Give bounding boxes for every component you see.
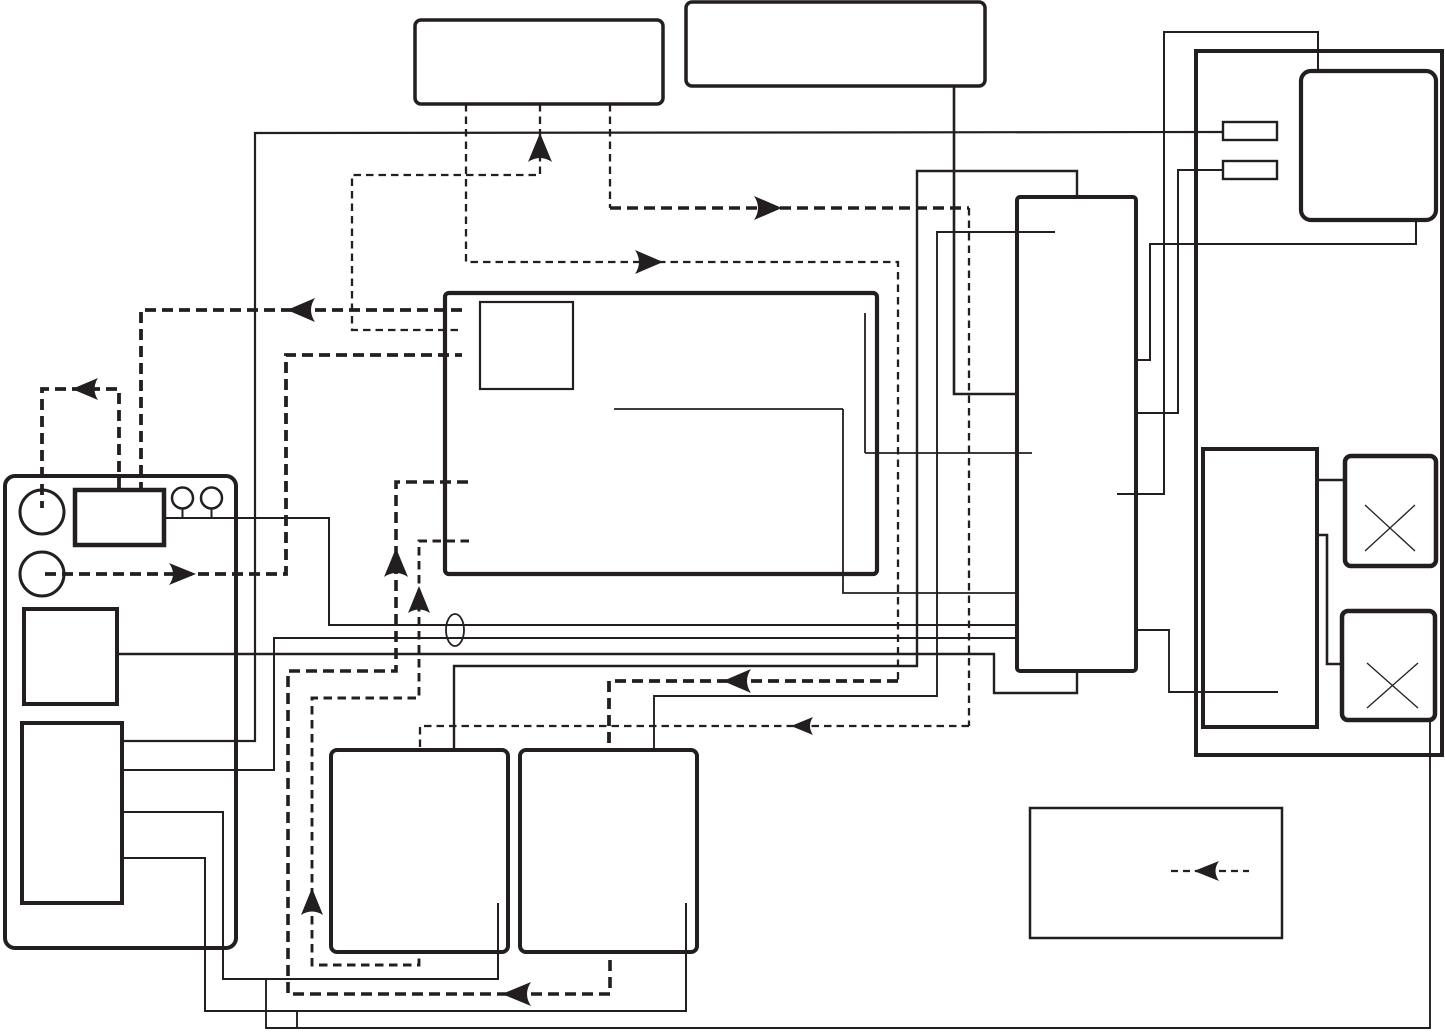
- dashed heavy path I2 bottom loop to box H (DA): [288, 482, 610, 994]
- wire inside box H vertical stub: [864, 313, 866, 453]
- wire box H interior to box D left at y453: [865, 452, 1032, 454]
- X box 1: [1345, 456, 1436, 566]
- wire panel-bottom-rect down to I2 inner stub: [122, 858, 686, 1011]
- crossing loop ellipse: [446, 614, 464, 646]
- arrow left on y389: [72, 378, 98, 400]
- indicator circle 1: [172, 488, 193, 509]
- inner square of box H: [480, 302, 573, 389]
- dashed horizontal y726 to I1 top (left arrow): [420, 726, 969, 749]
- arrow up on x312: [301, 888, 323, 915]
- small rect E1: [1223, 122, 1277, 140]
- wire box D left stub to box I2 top: [654, 232, 1055, 749]
- arrow right on y574: [169, 563, 196, 585]
- dashed heavy U path small rect to circle1 (DE, left arrow): [42, 389, 119, 508]
- X cross 2: [1367, 663, 1418, 708]
- dashed path I1 bottom loop with up arrows (DB): [312, 541, 469, 965]
- wire box F to X2: [1318, 535, 1341, 664]
- big right outer box: [1196, 51, 1442, 755]
- wire panel-bottom-rect to box D at y638: [122, 638, 1016, 770]
- wire connector between bottom lines: [296, 1011, 298, 1028]
- arrow left on y310: [287, 298, 315, 322]
- wire panel-bottom-rect down to I1 inner stub: [122, 812, 498, 979]
- dashed path from box A middle port to box H (up arrow): [352, 104, 540, 330]
- wire box F to X1: [1318, 479, 1344, 482]
- dashed heavy path circle2 to box H (DC): [45, 355, 462, 574]
- control panel outline: [5, 476, 236, 948]
- indicator stem 1: [182, 509, 184, 519]
- X cross 1: [1365, 505, 1415, 551]
- arrow up into box A: [528, 133, 552, 162]
- wire box B bottom to box D left: [954, 87, 1016, 394]
- wire box H interior down to box D left at y593: [843, 409, 1016, 593]
- dashed heavy path box H to panel small rect (DD, left arrow): [141, 310, 462, 489]
- wire box C top loop to box D right stub: [1117, 32, 1318, 494]
- wire box D right to box F interior: [1137, 630, 1278, 692]
- indicator circle 2: [201, 488, 222, 509]
- panel bottom rect: [22, 723, 122, 903]
- wire box C bottom to box D right: [1137, 221, 1416, 360]
- arrow left on y681: [723, 669, 751, 693]
- dashed path box A left port down right into DH vertical: [466, 104, 898, 680]
- dashed path box A right port down: [609, 104, 611, 208]
- wire inside box H horizontal: [614, 408, 843, 410]
- small rect E2: [1223, 161, 1277, 179]
- panel mid rect: [24, 609, 117, 704]
- arrow left inside box G: [1194, 861, 1219, 881]
- panel small rect: [75, 490, 164, 545]
- arrow up on x419: [408, 586, 430, 613]
- wire branch down to X2 bottom long run: [266, 721, 1430, 1028]
- box I1: [331, 750, 508, 952]
- tall box D: [1017, 197, 1136, 671]
- dashed heavy horizontal y208 (right arrow): [610, 206, 969, 210]
- box G bottom right: [1030, 808, 1282, 938]
- arrow right on y262: [635, 250, 663, 274]
- box I2: [520, 750, 697, 952]
- indicator stem 2: [211, 509, 213, 519]
- wire panel-small-rect to box D at y625: [164, 518, 1016, 625]
- panel circle 2: [20, 552, 64, 596]
- box A top-left: [415, 20, 663, 104]
- wire E2 to box D right: [1137, 170, 1223, 413]
- dashed heavy horizontal to I2 top (left arrow): [609, 681, 898, 749]
- arrow up on x396: [384, 548, 408, 577]
- wire panel-mid-rect to box D bottom: [117, 654, 1077, 693]
- dashed vertical x969 down: [968, 208, 970, 726]
- arrow left on y726: [791, 717, 813, 735]
- central box H: [445, 293, 877, 574]
- box B top: [686, 2, 985, 86]
- box C rounded top right: [1301, 71, 1436, 220]
- X box 2: [1342, 611, 1435, 720]
- panel circle 1: [20, 490, 64, 534]
- wire panel-bottom-rect to E1 long wire: [122, 132, 1222, 741]
- dashed arrow inside box G: [1171, 870, 1249, 872]
- wire box D top to box I1 top: [454, 171, 1077, 749]
- arrow left on y994: [502, 982, 531, 1006]
- box F: [1203, 449, 1317, 727]
- arrow right on y208: [754, 196, 782, 220]
